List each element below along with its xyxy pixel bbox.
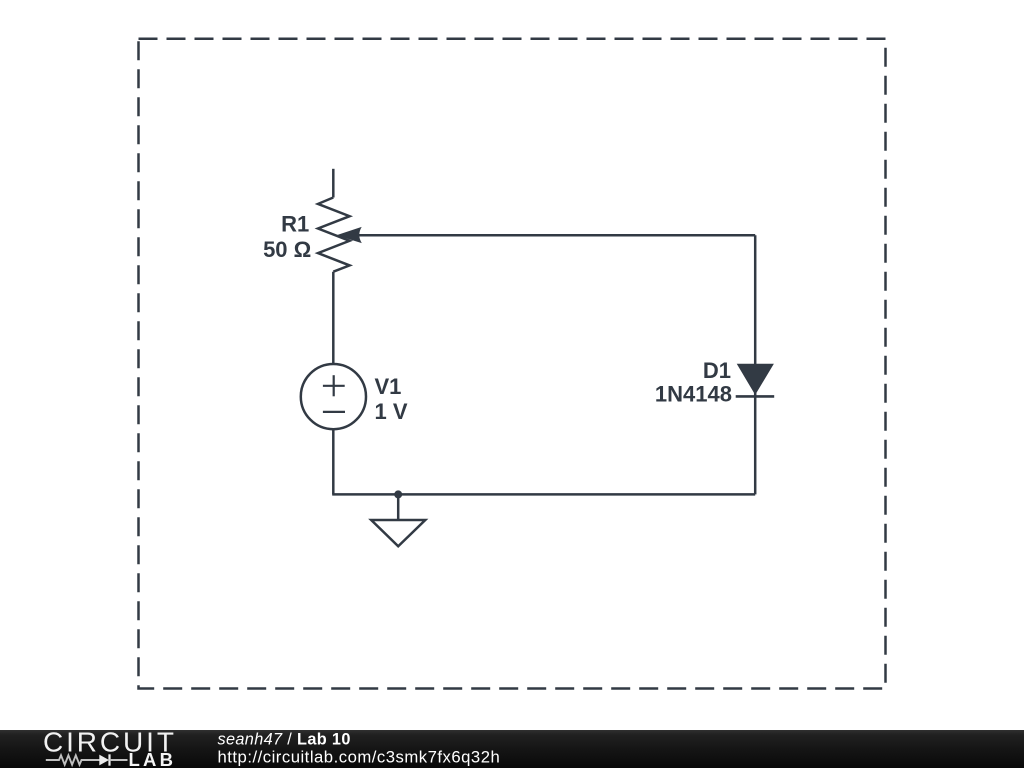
resistor R1 reference label (281, 212, 309, 237)
diode D1 value label 1N4148 (655, 382, 732, 407)
ground (371, 494, 425, 546)
svg-text:D1: D1 (703, 358, 731, 383)
watermark author and title (218, 730, 351, 748)
wire bottom horizontal (332, 493, 755, 496)
wire right vertical (754, 235, 757, 494)
svg-text:1N4148: 1N4148 (655, 382, 732, 407)
watermark url (218, 748, 501, 767)
diode D1 reference label (703, 358, 731, 383)
resistor R1 (potentiometer body) (318, 198, 350, 272)
potentiometer wiper arrow (336, 227, 361, 243)
svg-text:seanh47 / Lab 10: seanh47 / Lab 10 (218, 730, 351, 748)
voltage source V1 reference label (375, 374, 402, 399)
voltage source V1 value label 1 V (375, 399, 408, 424)
svg-text:LAB: LAB (129, 749, 177, 768)
wire top horizontal (358, 234, 755, 237)
watermark bar (0, 730, 1024, 768)
wire R1 to V1 (332, 272, 335, 365)
resistor R1 value label 50 Ω (263, 237, 311, 262)
svg-text:50 Ω: 50 Ω (263, 237, 311, 262)
svg-text:1 V: 1 V (375, 399, 408, 424)
svg-text:R1: R1 (281, 212, 309, 237)
voltage source V1 (301, 364, 366, 429)
CircuitLab logo schematic glyph (resistor and diode) (46, 754, 128, 765)
CircuitLab logo word LAB (129, 749, 177, 768)
node junction dot (394, 490, 402, 498)
CircuitLab logo word CIRCUIT (43, 727, 177, 758)
svg-text:http://circuitlab.com/c3smk7fx: http://circuitlab.com/c3smk7fx6q32h (218, 748, 501, 767)
wire top stub of R1 (332, 169, 335, 198)
diode D1 (736, 364, 775, 396)
svg-text:V1: V1 (375, 374, 402, 399)
wire V1 to bottom node (332, 429, 335, 494)
